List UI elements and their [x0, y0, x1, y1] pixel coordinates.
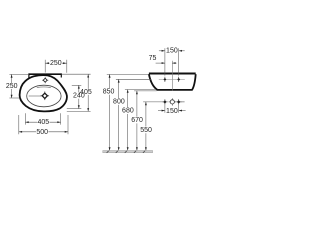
- svg-text:150: 150: [166, 48, 178, 55]
- dimension 500 bottom (outer width): [19, 115, 68, 136]
- dimension 150 bottom (wall fixing spacing): [158, 105, 186, 115]
- dimension 240 right (inner basin depth): [67, 85, 85, 108]
- fixing hole left (side view): [163, 77, 166, 82]
- dimension 670 (lower edge height): [131, 91, 157, 151]
- svg-text:250: 250: [50, 60, 62, 67]
- washbasin plan view: back ledge edge: [29, 73, 61, 78]
- dimension 680 (basin bottom height): [122, 90, 155, 151]
- wall fixing detail: center hole: [169, 98, 176, 105]
- svg-text:680: 680: [122, 108, 134, 115]
- wall fixing detail: right bolt: [176, 99, 182, 104]
- wall fixing detail: right lead line: [180, 101, 184, 103]
- washbasin side view: body outline: [149, 74, 196, 90]
- dimension 850 (rim height): [102, 74, 148, 150]
- dimension 75 (hole to centerline): [149, 55, 177, 64]
- washbasin plan view: inner basin oval: [27, 85, 61, 107]
- washbasin plan view: overflow line: [29, 95, 42, 97]
- washbasin plan view: inner rim second arc: [37, 86, 51, 89]
- svg-text:405: 405: [37, 119, 49, 126]
- dimension 800 (fixing hole height): [113, 79, 152, 150]
- wall fixing detail: left bolt: [162, 99, 168, 104]
- tap hole symbol (plan): [42, 77, 48, 83]
- floor line with hatching: [103, 151, 153, 153]
- dimension 405 bottom (inner width): [25, 113, 60, 126]
- washbasin side view: centerline: [171, 61, 173, 91]
- washbasin side view: rim top edge: [149, 73, 196, 75]
- drain hole symbol (plan): [41, 92, 50, 101]
- dimension 250 left (basin depth to drain): [6, 74, 29, 98]
- svg-text:75: 75: [149, 55, 157, 62]
- svg-text:500: 500: [36, 129, 48, 136]
- fixing hole right (side view): [177, 77, 180, 82]
- dimension 150 top (fixing holes spacing): [159, 48, 185, 76]
- fixing holes line (side view): [159, 78, 185, 80]
- washbasin plan view: outer rim oval: [20, 75, 67, 111]
- svg-text:800: 800: [113, 99, 125, 106]
- dimension 550 (wall fixing height): [140, 102, 162, 151]
- svg-text:150: 150: [166, 108, 178, 115]
- dimension 250 top (tap hole to right edge): [45, 60, 67, 73]
- svg-text:670: 670: [131, 117, 143, 124]
- svg-text:250: 250: [6, 83, 18, 90]
- svg-text:405: 405: [80, 89, 92, 96]
- dimension 405 right (outer basin depth): [62, 74, 92, 111]
- svg-text:550: 550: [140, 127, 152, 134]
- svg-text:850: 850: [103, 88, 115, 95]
